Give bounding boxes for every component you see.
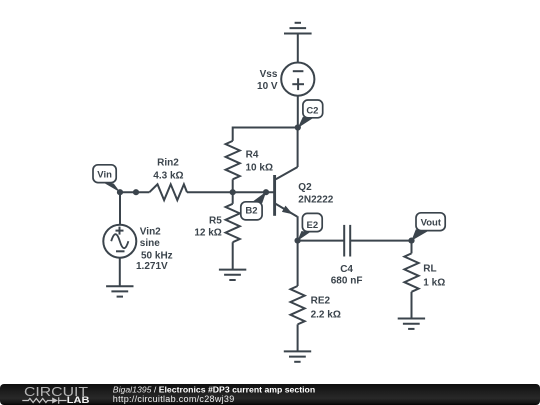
junction node E2 xyxy=(295,238,301,244)
svg-text:10 kΩ: 10 kΩ xyxy=(246,162,273,173)
svg-text:2.2 kΩ: 2.2 kΩ xyxy=(311,309,341,320)
node flag Vin xyxy=(93,165,120,193)
junction Vin xyxy=(117,189,123,195)
svg-text:4.3 kΩ: 4.3 kΩ xyxy=(153,171,183,182)
node flag Vout xyxy=(411,213,445,241)
label RL 1 kOhm xyxy=(423,263,445,288)
svg-text:Bigal1395 / Electronics #DP3 c: Bigal1395 / Electronics #DP3 current amp… xyxy=(113,384,315,394)
svg-text:RE2: RE2 xyxy=(311,295,331,306)
wire Vss to node C2 xyxy=(297,96,299,128)
svg-text:Q2: Q2 xyxy=(298,182,312,193)
ground (top, inverted) xyxy=(284,23,312,34)
label RE2 2.2 kOhm xyxy=(311,295,341,320)
svg-text:12 kΩ: 12 kΩ xyxy=(194,227,221,238)
node flag C2 xyxy=(298,100,323,128)
label Vin2 sine 50 kHz 1.271V xyxy=(136,226,173,272)
svg-text:RL: RL xyxy=(423,263,436,274)
wire top ground to Vss xyxy=(297,34,299,63)
ground (below R5) xyxy=(219,270,246,280)
capacitor C4 xyxy=(344,225,350,257)
wire R5 to ground xyxy=(232,242,234,269)
footer bar xyxy=(0,384,540,405)
wire Vin down to Vin2 xyxy=(119,192,121,225)
svg-text:Vout: Vout xyxy=(421,218,442,229)
wire R5 top xyxy=(232,192,234,204)
label C4 680 nF xyxy=(331,264,363,287)
svg-text:Vin: Vin xyxy=(97,170,112,181)
svg-text:2N2222: 2N2222 xyxy=(298,194,333,205)
resistor Rin2 xyxy=(149,184,187,200)
junction node C2 xyxy=(295,124,301,130)
voltage source Vss xyxy=(281,63,314,96)
junction wire dot xyxy=(133,189,139,195)
wire collector to node C2 xyxy=(297,128,299,168)
svg-text:C4: C4 xyxy=(340,264,353,275)
wire E2 to RE2 xyxy=(297,241,299,286)
wire R4 to base node xyxy=(232,179,234,192)
svg-text:R5: R5 xyxy=(209,215,222,226)
svg-text:http://circuitlab.com/c28wj39: http://circuitlab.com/c28wj39 xyxy=(113,394,235,404)
resistor RL xyxy=(404,253,418,291)
svg-text:1 kΩ: 1 kΩ xyxy=(423,277,445,288)
label Q2 2N2222 xyxy=(298,182,333,205)
svg-text:50 kHz: 50 kHz xyxy=(141,250,173,261)
resistor R5 xyxy=(226,204,240,242)
ground (below RE2) xyxy=(284,351,311,361)
ground (below Vin2) xyxy=(106,286,133,296)
svg-text:Rin2: Rin2 xyxy=(157,157,179,168)
svg-text:LAB: LAB xyxy=(67,395,90,405)
label Vss 10 V xyxy=(257,69,278,92)
wire RE2 to ground xyxy=(297,324,299,351)
wire Vin2 to ground xyxy=(119,258,121,287)
wire node C2 to R4 top xyxy=(233,128,298,141)
svg-text:E2: E2 xyxy=(306,220,318,231)
ground (below RL) xyxy=(398,319,425,329)
svg-text:B2: B2 xyxy=(245,205,257,216)
wire Rin2 to Q2 base xyxy=(187,191,274,193)
svg-text:R4: R4 xyxy=(246,149,259,160)
svg-text:1.271V: 1.271V xyxy=(136,261,168,272)
label R4 10 kOhm xyxy=(246,149,273,173)
junction base R4 R5 xyxy=(230,189,236,195)
label Rin2 4.3 kOhm xyxy=(153,157,183,181)
transistor Q2 xyxy=(275,167,298,217)
wire C4 to Vout node xyxy=(350,240,411,242)
wire Vout node to RL xyxy=(411,241,413,254)
voltage source Vin2 xyxy=(103,225,136,258)
wire emitter to node E2 xyxy=(297,216,299,240)
svg-text:C2: C2 xyxy=(306,106,318,117)
wire Vin to Rin2 xyxy=(120,191,149,193)
label R5 12 kOhm xyxy=(194,215,222,238)
resistor RE2 xyxy=(291,286,305,324)
junction node Vout xyxy=(408,238,414,244)
logo resistor + diode glyph xyxy=(22,397,66,404)
node flag E2 xyxy=(297,213,322,241)
node flag B2 xyxy=(241,192,266,220)
resistor R4 xyxy=(226,141,240,179)
svg-text:10 V: 10 V xyxy=(257,81,278,92)
wire E2 to C4 xyxy=(298,240,345,242)
svg-text:Vss: Vss xyxy=(260,69,278,80)
wire RL to ground xyxy=(411,292,413,319)
svg-text:Vin2: Vin2 xyxy=(140,226,161,237)
svg-text:680 nF: 680 nF xyxy=(331,276,363,287)
junction base B2 xyxy=(263,189,269,195)
svg-text:sine: sine xyxy=(140,238,160,249)
